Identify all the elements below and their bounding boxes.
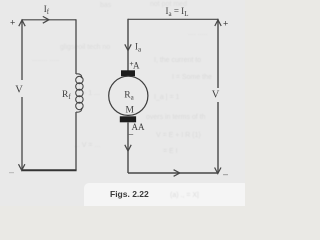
arrow up at top-right corner (215, 20, 221, 26)
arrow up at top-left corner (19, 20, 25, 26)
brush A (top) (121, 70, 135, 76)
arrow down at bottom-right corner (215, 168, 221, 174)
svg-text:.... .....: .... ..... (188, 30, 208, 37)
wire: right loop top (128, 18, 218, 20)
svg-text:M: M (126, 106, 135, 116)
svg-text:Figs. 2.22: Figs. 2.22 (110, 189, 149, 199)
svg-text:V = E + I R (1): V = E + I R (1) (156, 132, 201, 139)
wire: armature branch bottom segment (127, 123, 129, 174)
svg-text:= E I: = E I (163, 148, 178, 155)
wire: left loop left vertical upper segment (21, 19, 23, 80)
svg-text:AA: AA (132, 122, 145, 132)
wire: right loop bottom (128, 172, 218, 174)
svg-text:I = Some the: I = Some the (172, 74, 212, 81)
arrow down at bottom-left corner (19, 164, 25, 170)
wire: left loop top (22, 19, 76, 21)
arrow down on armature branch bottom (125, 145, 131, 151)
caption box (84, 183, 249, 210)
brush AA (bottom) (120, 116, 136, 122)
field winding Rf coil (76, 74, 83, 112)
wire: field branch above coil (75, 19, 77, 74)
svg-text:V: V (212, 90, 220, 101)
wire: right vertical lower segment (217, 102, 219, 173)
svg-text:A: A (133, 61, 140, 71)
arrow right on bottom wire (174, 170, 180, 177)
armature circle M (109, 76, 148, 115)
ghost bleed-through text (decorative) (32, 1, 212, 155)
svg-text:........ .....: ........ ..... (32, 56, 59, 63)
svg-text:+: + (223, 19, 228, 29)
svg-text:... V = ...: ... V = ... (74, 142, 100, 149)
svg-text:I_a | = 1: I_a | = 1 (154, 94, 179, 101)
svg-text:–: – (129, 130, 134, 139)
svg-text:gligseoil tech no: gligseoil tech no (60, 44, 110, 51)
svg-text:–: – (223, 169, 228, 179)
wire: armature branch top segment (127, 19, 129, 71)
svg-text:V: V (15, 85, 23, 96)
svg-text:- 1 ...: - 1 ... (84, 90, 100, 97)
current arrow If on top wire (43, 16, 49, 23)
svg-text:overs in terms of th: overs in terms of th (146, 114, 206, 121)
svg-text:+: + (10, 18, 15, 28)
wire: field branch below coil (75, 112, 77, 170)
paper background (0, 0, 245, 206)
svg-text:bas: bas (100, 2, 112, 9)
current arrow Ia on armature branch (125, 44, 131, 50)
svg-text:–: – (9, 167, 14, 177)
wire: left loop left vertical lower segment (21, 97, 23, 170)
svg-text:I, the current to: I, the current to (154, 57, 201, 64)
wire: left loop bottom (21, 169, 76, 171)
wire: right vertical upper segment (217, 19, 219, 88)
svg-text:(a) ., = X|: (a) ., = X| (170, 192, 199, 199)
